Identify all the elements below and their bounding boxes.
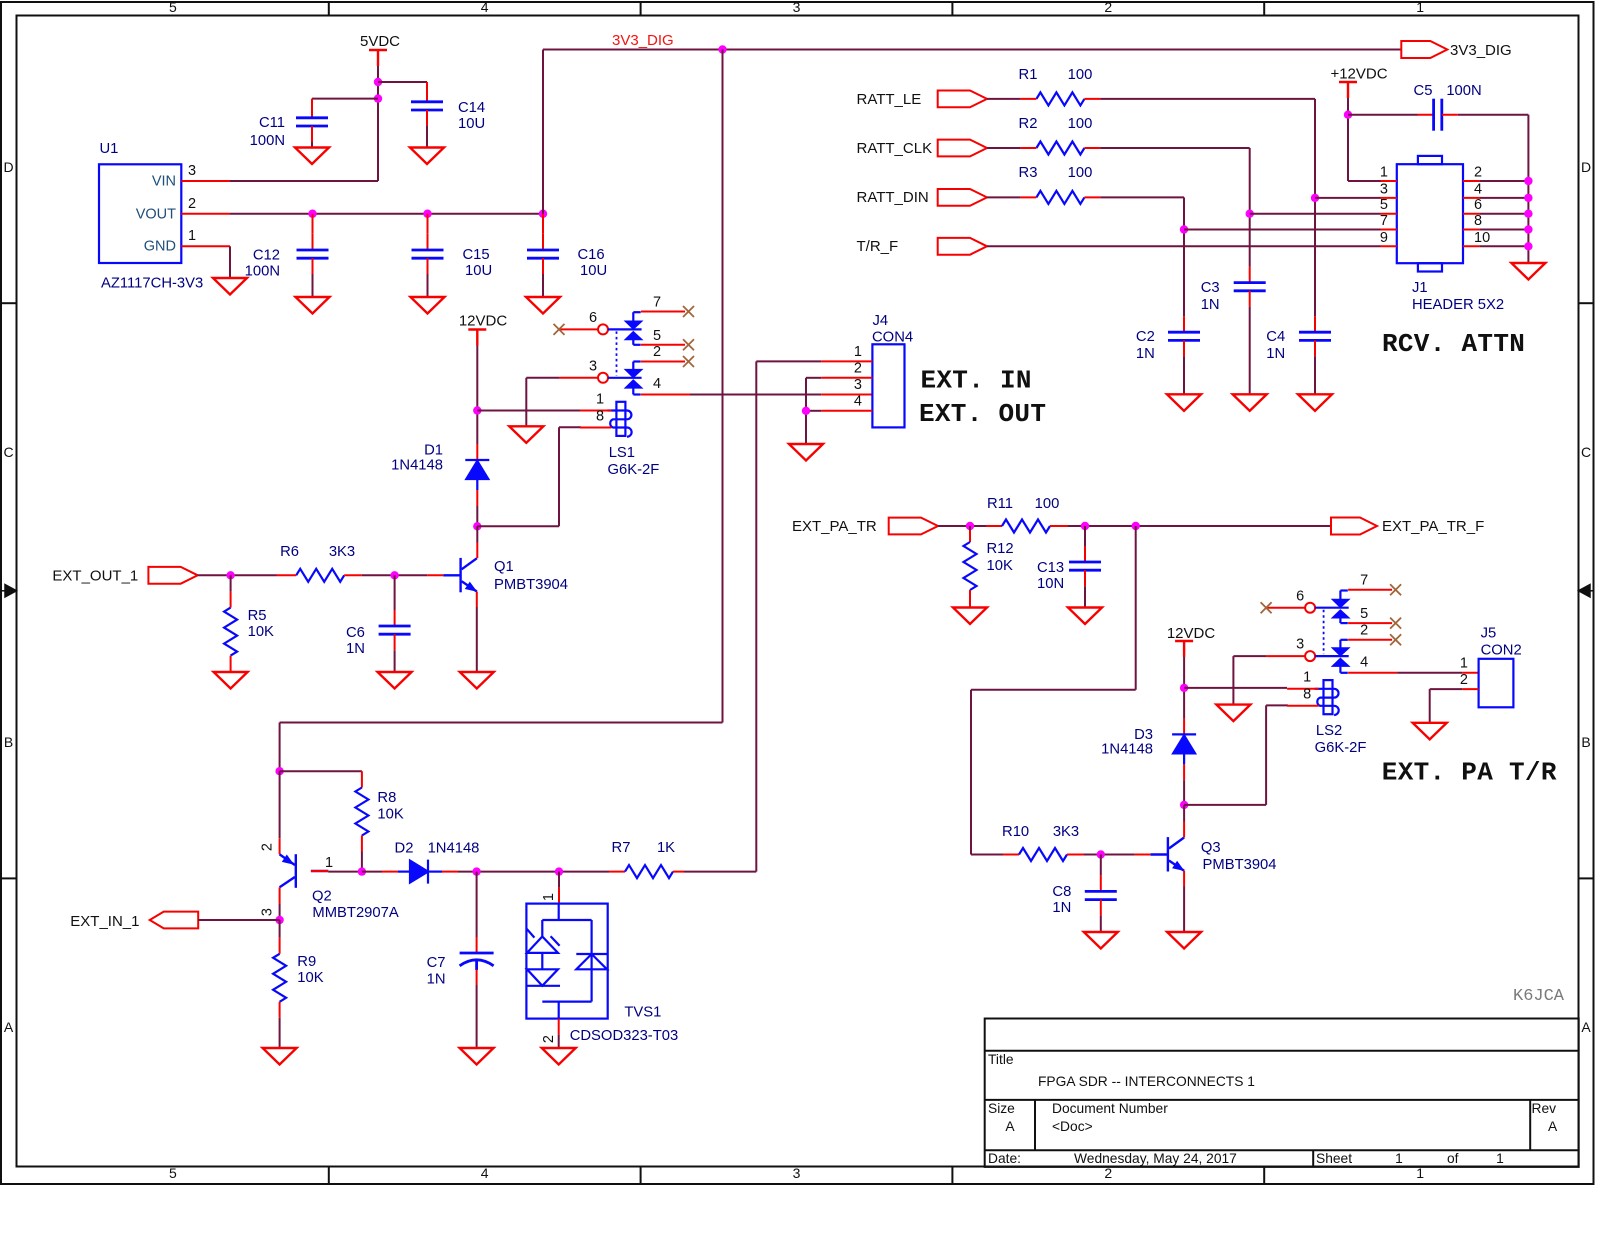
resistor R3 xyxy=(1036,191,1084,204)
wire to J1 pin3 xyxy=(1315,197,1381,199)
port T/R_F xyxy=(938,238,987,255)
power symbol +12VDC xyxy=(1339,82,1357,98)
svg-text:A: A xyxy=(4,1019,14,1035)
junction xyxy=(1132,522,1140,530)
svg-text:3K3: 3K3 xyxy=(1053,824,1079,840)
svg-text:B: B xyxy=(4,734,13,750)
svg-text:1N: 1N xyxy=(1052,900,1071,916)
svg-text:C14: C14 xyxy=(458,100,485,116)
junction xyxy=(390,571,398,579)
power symbol 5VDC xyxy=(369,50,387,66)
svg-text:3: 3 xyxy=(188,163,196,179)
wire xyxy=(1479,180,1528,182)
wire R8 to base node xyxy=(361,836,363,852)
svg-text:RATT_LE: RATT_LE xyxy=(857,91,922,108)
transistor Q1 PMBT3904 xyxy=(443,558,477,592)
wire TVS pin 1 xyxy=(558,872,560,888)
wire R11 out xyxy=(1068,525,1331,527)
svg-text:8: 8 xyxy=(596,408,604,424)
junction xyxy=(1081,522,1089,530)
ground LS1 xyxy=(509,426,543,443)
relay pole2 common pin 3 xyxy=(1266,655,1305,657)
wire R6 to Q1 base xyxy=(362,574,428,576)
junction xyxy=(718,45,726,53)
wire D1 anode xyxy=(476,490,478,506)
port EXT_IN_1 xyxy=(150,912,199,929)
svg-text:3V3_DIG: 3V3_DIG xyxy=(1450,42,1512,59)
svg-text:1N: 1N xyxy=(427,971,446,987)
svg-text:D: D xyxy=(1581,159,1591,175)
wire to C14 xyxy=(378,81,427,83)
J1 pin 7 xyxy=(1381,229,1397,231)
svg-text:R6: R6 xyxy=(280,544,299,560)
wire to J1 pin5 xyxy=(1250,213,1381,215)
ground R9 xyxy=(263,1048,297,1065)
resistor R1 xyxy=(1036,92,1084,105)
capacitor C12 xyxy=(312,214,314,234)
svg-text:3: 3 xyxy=(854,377,862,393)
svg-text:C13: C13 xyxy=(1037,560,1064,576)
relay pole2 NC contact pin 2 xyxy=(626,362,640,377)
junction xyxy=(555,867,563,875)
svg-text:1N: 1N xyxy=(1136,346,1155,362)
svg-text:Date:: Date: xyxy=(988,1151,1021,1166)
J1 pin 3 xyxy=(1381,197,1397,199)
junction xyxy=(1524,225,1532,233)
wire EXT_OUT_1 to R6 xyxy=(198,574,277,576)
svg-text:C16: C16 xyxy=(578,247,605,263)
relay coil pin 8 xyxy=(1287,705,1319,707)
svg-text:VIN: VIN xyxy=(152,174,176,190)
svg-text:EXT. OUT: EXT. OUT xyxy=(919,399,1046,429)
capacitor C15 xyxy=(427,214,429,234)
wire C5 to bus xyxy=(1442,114,1458,116)
svg-text:G6K-2F: G6K-2F xyxy=(608,462,660,478)
wire EXT_PA to Q3 xyxy=(1135,526,1137,690)
wire LS1 pin3 to ground xyxy=(526,377,559,379)
svg-text:J4: J4 xyxy=(873,313,889,329)
svg-text:1N: 1N xyxy=(1266,346,1285,362)
svg-text:3: 3 xyxy=(260,908,276,916)
junction xyxy=(226,571,234,579)
svg-text:3: 3 xyxy=(793,0,801,15)
relay coil pin 1 xyxy=(580,410,612,412)
svg-text:2: 2 xyxy=(1460,672,1468,688)
wire 3V3_DIG drop xyxy=(722,50,724,723)
svg-text:3V3_DIG: 3V3_DIG xyxy=(612,32,674,49)
svg-text:LS2: LS2 xyxy=(1316,723,1342,739)
svg-text:HEADER 5X2: HEADER 5X2 xyxy=(1412,297,1504,313)
svg-text:1: 1 xyxy=(541,893,557,901)
junction xyxy=(472,867,480,875)
svg-text:3: 3 xyxy=(1296,637,1304,653)
svg-text:10K: 10K xyxy=(248,624,274,640)
junction xyxy=(1311,194,1319,202)
resistor R12 xyxy=(969,526,971,530)
wire +12VDC down xyxy=(1347,97,1349,99)
junction xyxy=(358,867,366,875)
svg-text:1N: 1N xyxy=(346,641,365,657)
wire J4 pin2/4 to ground xyxy=(806,377,821,379)
wire C14 to ground xyxy=(426,110,428,126)
svg-text:EXT. PA T/R: EXT. PA T/R xyxy=(1382,758,1557,788)
wire U1 GND to ground xyxy=(229,246,231,278)
svg-text:R11: R11 xyxy=(987,496,1013,512)
wire to J1 pin9 xyxy=(987,245,1381,247)
svg-text:6: 6 xyxy=(1296,588,1304,604)
capacitor C13 xyxy=(1084,526,1086,546)
svg-text:C: C xyxy=(1581,444,1591,460)
U1 pin 3 xyxy=(181,180,230,182)
wire R7 to J4 riser xyxy=(684,871,756,873)
relay coil pin 8 xyxy=(580,427,612,429)
svg-text:D: D xyxy=(3,159,13,175)
svg-text:R10: R10 xyxy=(1002,824,1029,840)
svg-text:4: 4 xyxy=(481,0,489,15)
junction xyxy=(1524,210,1532,218)
J4 pin 1 xyxy=(821,360,872,362)
ground C11 xyxy=(295,148,329,165)
capacitor C7 xyxy=(476,872,478,937)
wire 12VDC to D1 xyxy=(476,346,478,445)
J1 pin 5 xyxy=(1381,213,1397,215)
svg-text:Rev: Rev xyxy=(1532,1101,1557,1116)
ground C7 xyxy=(460,1048,494,1065)
svg-text:4: 4 xyxy=(854,394,862,410)
svg-text:EXT_PA_TR: EXT_PA_TR xyxy=(792,518,877,535)
relay linkage dashed xyxy=(616,331,618,375)
relay coil pin 1 xyxy=(1287,688,1319,690)
wire to R8 xyxy=(280,770,362,772)
svg-text:7: 7 xyxy=(1360,573,1368,589)
capacitor C8 xyxy=(1100,855,1102,876)
no-connect pin 6 xyxy=(1261,602,1272,613)
svg-text:10K: 10K xyxy=(377,807,403,823)
svg-text:PMBT3904: PMBT3904 xyxy=(494,577,568,593)
junction xyxy=(473,406,481,414)
J1 pin 4 xyxy=(1463,197,1479,199)
relay pole1 NO contact pin 5 xyxy=(626,332,640,345)
port RATT_CLK xyxy=(938,140,987,157)
junction xyxy=(1180,225,1188,233)
mid arrow right xyxy=(1579,585,1594,598)
svg-text:Sheet: Sheet xyxy=(1316,1151,1352,1166)
wire base node to D2 xyxy=(362,871,382,873)
svg-text:1: 1 xyxy=(325,855,333,871)
connector J4 CON4 xyxy=(872,344,904,427)
port 3V3_DIG xyxy=(1401,41,1447,58)
svg-text:LS1: LS1 xyxy=(609,445,635,461)
relay pole2 common pin 3 xyxy=(559,377,598,379)
wire LS2 pin3 to ground xyxy=(1233,655,1266,657)
J4 pin 4 xyxy=(821,410,872,412)
resistor R2 xyxy=(1036,142,1084,155)
wire Q2 base xyxy=(311,870,328,872)
svg-text:<Doc>: <Doc> xyxy=(1052,1119,1093,1134)
diode D2 1N4148 xyxy=(398,860,442,884)
U1 pin 2 xyxy=(181,213,230,215)
svg-text:1: 1 xyxy=(1303,670,1311,686)
wire xyxy=(1479,229,1528,231)
svg-text:C3: C3 xyxy=(1201,280,1220,296)
junction xyxy=(802,407,810,415)
svg-text:6: 6 xyxy=(589,310,597,326)
wire EXT_IN_1 xyxy=(198,919,279,921)
ground J5 xyxy=(1413,723,1447,740)
svg-text:J1: J1 xyxy=(1412,280,1428,296)
no-connect pin 6 xyxy=(554,324,565,335)
relay pole2 NO contact pin 4 xyxy=(626,381,640,395)
svg-text:4: 4 xyxy=(653,376,661,392)
svg-text:1: 1 xyxy=(1416,0,1424,15)
zone ticks right xyxy=(1579,302,1594,304)
svg-text:EXT_IN_1: EXT_IN_1 xyxy=(70,913,139,930)
svg-text:2: 2 xyxy=(188,196,196,212)
svg-text:AZ1117CH-3V3: AZ1117CH-3V3 xyxy=(101,276,203,292)
svg-text:9: 9 xyxy=(1380,230,1388,246)
resistor R6 xyxy=(296,569,344,582)
relay pole1 NO contact pin 5 xyxy=(1333,611,1347,624)
svg-text:Title: Title xyxy=(988,1052,1014,1067)
wire R5 to ground xyxy=(230,656,232,672)
wire xyxy=(1479,197,1528,199)
svg-text:1: 1 xyxy=(1395,1151,1403,1166)
junction xyxy=(1524,194,1532,202)
wire to J1 pin1 xyxy=(1348,180,1381,182)
svg-text:of: of xyxy=(1447,1151,1459,1166)
junction xyxy=(374,94,382,102)
wire LS1 pin8 loop xyxy=(559,426,581,428)
J1 pin 8 xyxy=(1463,229,1479,231)
resistor R5 xyxy=(230,575,232,591)
svg-text:C6: C6 xyxy=(346,625,365,641)
connector J5 CON2 xyxy=(1479,659,1514,708)
svg-text:MMBT2907A: MMBT2907A xyxy=(312,905,398,921)
svg-text:PMBT3904: PMBT3904 xyxy=(1203,857,1277,873)
wire to C5 xyxy=(1348,114,1418,116)
wire Q1 emitter xyxy=(476,592,478,608)
diode D1 1N4148 xyxy=(465,460,489,490)
ground R5 xyxy=(214,672,248,689)
junction xyxy=(1180,801,1188,809)
svg-text:8: 8 xyxy=(1303,687,1311,703)
svg-text:A: A xyxy=(1581,1019,1591,1035)
svg-text:3: 3 xyxy=(793,1165,801,1181)
wire xyxy=(987,196,1020,198)
svg-text:10: 10 xyxy=(1474,230,1490,246)
capacitor C16 xyxy=(542,214,544,234)
svg-text:100N: 100N xyxy=(1446,83,1481,99)
capacitor C3 xyxy=(1249,267,1251,283)
wire 12VDC down xyxy=(1183,657,1185,718)
ground Q3 xyxy=(1167,932,1201,949)
wire D3 anode xyxy=(1183,764,1185,780)
svg-text:C8: C8 xyxy=(1052,884,1071,900)
capacitor C4 xyxy=(1314,316,1316,332)
relay pole1 NC contact pin 7 xyxy=(626,312,640,328)
wire R2 out xyxy=(1100,147,1249,149)
junction xyxy=(1180,684,1188,692)
relay linkage dashed xyxy=(1323,610,1325,654)
svg-text:R8: R8 xyxy=(377,790,396,806)
svg-text:C2: C2 xyxy=(1136,329,1155,345)
wire EXT_PA_TR xyxy=(938,525,986,527)
ground C13 xyxy=(1068,608,1102,625)
svg-text:1N4148: 1N4148 xyxy=(391,458,443,474)
svg-text:RCV. ATTN: RCV. ATTN xyxy=(1382,329,1525,359)
junction xyxy=(1344,111,1352,119)
relay coil xyxy=(608,402,632,437)
power symbol 12VDC (Q1) xyxy=(468,330,486,346)
transistor Q3 PMBT3904 xyxy=(1151,837,1185,871)
capacitor C2 xyxy=(1183,316,1185,332)
wire 5VDC to VIN xyxy=(377,66,379,181)
wire Q2 emitter feed xyxy=(279,771,281,838)
svg-text:R2: R2 xyxy=(1019,116,1038,132)
ground C16 xyxy=(526,297,560,314)
svg-text:R1: R1 xyxy=(1019,67,1038,83)
svg-text:3K3: 3K3 xyxy=(329,544,355,560)
ground U1 xyxy=(213,278,247,295)
J1 pin 6 xyxy=(1463,213,1479,215)
svg-text:CON4: CON4 xyxy=(872,330,913,346)
wire RATT_LE to R1 xyxy=(987,98,1020,100)
svg-text:B: B xyxy=(1581,734,1590,750)
svg-text:5: 5 xyxy=(1360,606,1368,622)
junction xyxy=(275,767,283,775)
svg-text:TVS1: TVS1 xyxy=(624,1004,661,1020)
ground C6 xyxy=(378,672,412,689)
zone ticks left xyxy=(1,302,17,304)
svg-text:Size: Size xyxy=(988,1101,1015,1116)
transistor Q2 MMBT2907A xyxy=(280,854,329,888)
svg-text:Wednesday, May 24, 2017: Wednesday, May 24, 2017 xyxy=(1074,1151,1237,1166)
wire xyxy=(1479,213,1528,215)
svg-text:5VDC: 5VDC xyxy=(360,33,400,50)
relay pole1 NC contact pin 7 xyxy=(1333,591,1347,607)
svg-text:6: 6 xyxy=(1474,197,1482,213)
svg-text:1: 1 xyxy=(1380,165,1388,181)
svg-text:10U: 10U xyxy=(465,263,492,279)
ground C8 xyxy=(1084,932,1118,949)
junction xyxy=(374,78,382,86)
svg-text:100: 100 xyxy=(1035,496,1060,512)
wire R12 to ground xyxy=(969,590,971,606)
svg-text:12VDC: 12VDC xyxy=(459,313,508,330)
svg-text:5: 5 xyxy=(169,1165,177,1181)
svg-text:7: 7 xyxy=(1380,213,1388,229)
svg-text:VOUT: VOUT xyxy=(136,206,176,222)
svg-text:1: 1 xyxy=(188,228,196,244)
resistor R11 xyxy=(986,525,1002,527)
capacitor C14 xyxy=(411,102,443,110)
ground J1 bus xyxy=(1511,263,1545,280)
power symbol 12VDC (Q3) xyxy=(1175,641,1193,657)
ground C12 xyxy=(296,297,330,314)
wire Q1 collector xyxy=(476,526,478,542)
J1 pin 2 xyxy=(1463,180,1479,182)
svg-text:GND: GND xyxy=(144,239,176,255)
ground LS2 xyxy=(1216,705,1250,722)
svg-text:100N: 100N xyxy=(245,263,280,279)
svg-text:EXT_PA_TR_F: EXT_PA_TR_F xyxy=(1382,518,1484,535)
svg-text:2: 2 xyxy=(653,344,661,360)
svg-text:U1: U1 xyxy=(100,141,119,157)
svg-text:1: 1 xyxy=(596,391,604,407)
wire R9 to ground xyxy=(279,1002,281,1018)
svg-text:3: 3 xyxy=(1380,181,1388,197)
svg-text:100: 100 xyxy=(1068,165,1093,181)
wire to LS1 coil pin1 xyxy=(477,410,580,412)
svg-text:1N4148: 1N4148 xyxy=(428,841,480,857)
svg-text:CDSOD323-T03: CDSOD323-T03 xyxy=(570,1028,679,1044)
ground Q1 xyxy=(460,672,494,689)
ground C2 xyxy=(1167,394,1201,411)
svg-text:C5: C5 xyxy=(1414,83,1433,99)
ground R12 xyxy=(953,608,987,625)
wire C11 to ground xyxy=(311,126,313,142)
svg-text:12VDC: 12VDC xyxy=(1167,625,1216,642)
svg-text:RATT_CLK: RATT_CLK xyxy=(857,140,933,157)
wire to LS2 coil pin1 xyxy=(1184,687,1287,689)
svg-text:100: 100 xyxy=(1068,67,1093,83)
svg-text:2: 2 xyxy=(260,843,276,851)
svg-text:5: 5 xyxy=(653,328,661,344)
resistor R10 xyxy=(1003,854,1019,856)
svg-text:RATT_DIN: RATT_DIN xyxy=(857,189,929,206)
ground C15 xyxy=(411,297,445,314)
wire D2 out xyxy=(442,871,458,873)
diode D3 1N4148 xyxy=(1172,734,1196,764)
svg-text:10U: 10U xyxy=(458,116,485,132)
J1 pin 10 xyxy=(1463,245,1479,247)
svg-text:4: 4 xyxy=(1360,654,1368,670)
svg-text:EXT. IN: EXT. IN xyxy=(921,366,1032,396)
svg-text:5: 5 xyxy=(169,0,177,15)
junction xyxy=(1524,177,1532,185)
svg-text:10N: 10N xyxy=(1037,576,1064,592)
svg-text:C7: C7 xyxy=(427,955,446,971)
port EXT_PA_TR_F xyxy=(1331,518,1377,535)
svg-text:C11: C11 xyxy=(259,115,285,131)
ground C3 xyxy=(1233,394,1267,411)
svg-text:1: 1 xyxy=(1496,1151,1504,1166)
wire xyxy=(987,147,1020,149)
svg-text:1K: 1K xyxy=(657,840,675,856)
svg-text:D1: D1 xyxy=(424,443,443,459)
junction xyxy=(1524,242,1532,250)
U1 pin 1 xyxy=(181,245,230,247)
capacitor C11 xyxy=(296,118,328,126)
title block xyxy=(985,1019,1579,1167)
svg-text:R9: R9 xyxy=(297,954,316,970)
wire 3V3_DIG top run xyxy=(543,49,1401,51)
junction xyxy=(423,210,431,218)
relay LS1 G6K-2F xyxy=(554,294,695,436)
svg-text:5: 5 xyxy=(1380,197,1388,213)
wire Q3 collector xyxy=(1183,805,1185,822)
capacitor C6 xyxy=(394,575,396,610)
J1 pin 1 xyxy=(1381,180,1397,182)
svg-text:A: A xyxy=(1548,1119,1558,1134)
svg-text:CON2: CON2 xyxy=(1481,643,1522,659)
wire xyxy=(1479,245,1528,247)
svg-text:2: 2 xyxy=(1474,165,1482,181)
wire Q2 collector xyxy=(279,887,281,904)
relay pole2 NO contact pin 4 xyxy=(1333,659,1347,673)
port RATT_LE xyxy=(938,91,987,108)
svg-text:R12: R12 xyxy=(987,541,1014,557)
